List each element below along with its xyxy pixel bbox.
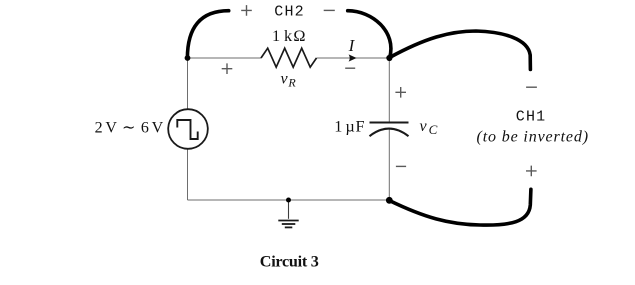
svg-text:Circuit 3: Circuit 3 <box>260 252 319 270</box>
svg-text:CH1: CH1 <box>516 109 545 126</box>
svg-text:CH2: CH2 <box>274 4 303 21</box>
svg-text:1 µF: 1 µF <box>334 117 364 136</box>
svg-text:2 V ∼ 6 V: 2 V ∼ 6 V <box>95 120 164 137</box>
svg-text:1 kΩ: 1 kΩ <box>272 26 306 45</box>
svg-text:(to be inverted): (to be inverted) <box>477 128 589 145</box>
